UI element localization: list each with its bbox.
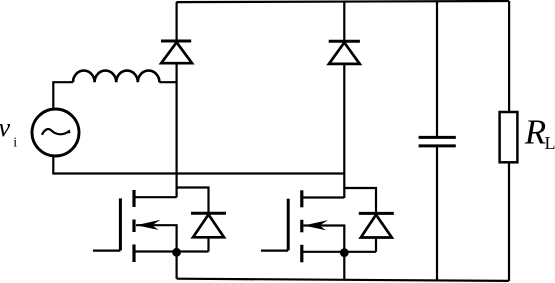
wire capacitor rail lower bbox=[436, 147, 438, 280]
inductor L bbox=[73, 71, 159, 83]
wire leg1 upper (top rail to D1 cathode) bbox=[176, 2, 178, 41]
svg-text:i: i bbox=[13, 136, 17, 151]
wire inductor to node A bbox=[159, 81, 176, 83]
wire capacitor rail upper bbox=[436, 1, 438, 136]
wire Q1 source to bottom rail bbox=[176, 252, 178, 279]
capacitor C bbox=[419, 137, 456, 146]
mosfet Q2 bbox=[261, 190, 376, 262]
wire load rail upper bbox=[508, 1, 510, 112]
wire leg2 upper (top rail to D2 cathode) bbox=[343, 2, 345, 42]
wire top rail bbox=[176, 1, 509, 2]
svg-text:L: L bbox=[545, 133, 555, 153]
wire source bottom return to node B bbox=[53, 156, 344, 174]
wire leg2 lower (D2 anode down to Q2 drain) bbox=[343, 64, 345, 198]
wire source top to inductor bbox=[53, 82, 73, 109]
diode D2 bbox=[329, 41, 360, 64]
svg-text:R: R bbox=[524, 113, 546, 152]
body diode D3 of Q1 bbox=[177, 188, 226, 252]
wire bottom rail bbox=[177, 279, 509, 281]
svg-text:v: v bbox=[0, 113, 11, 142]
junction dot Q1 source node bbox=[172, 248, 181, 257]
resistor RL bbox=[500, 112, 518, 162]
wire leg1 lower (D1 anode down to Q1 drain) bbox=[176, 63, 178, 197]
wire Q2 source to bottom rail bbox=[343, 252, 345, 280]
ac source vi bbox=[32, 109, 79, 156]
wire load rail lower bbox=[508, 162, 510, 281]
mosfet Q1 bbox=[93, 190, 209, 262]
diode D1 bbox=[161, 41, 192, 63]
body diode D4 of Q2 bbox=[344, 188, 394, 252]
junction dot Q2 source node bbox=[340, 248, 349, 257]
